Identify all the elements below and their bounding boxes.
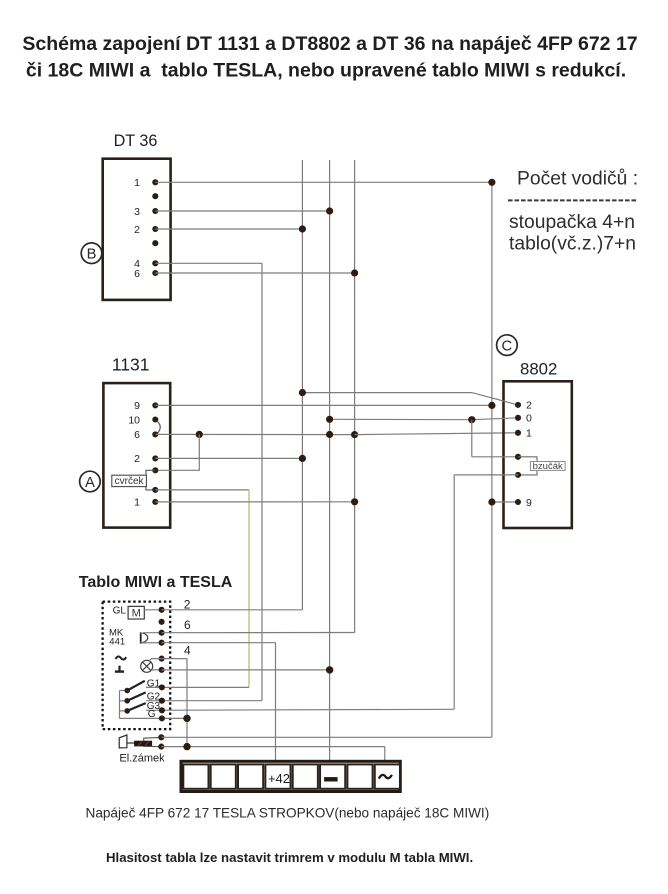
- junction bzučák-top branch: [468, 416, 475, 423]
- switch G1 stub: [120, 690, 128, 692]
- junction 1131.1/riser net-2b: [351, 498, 358, 505]
- terminal label AC: [379, 775, 392, 779]
- tablo pin row2 dot: [159, 607, 165, 613]
- junction 1131.6/riser net-2b: [351, 431, 358, 438]
- junction lamp row/riser net-2: [326, 666, 333, 673]
- wire riser net-4 x=262 (DT36.4 / tablo G2): [261, 263, 263, 700]
- wire cvrček box bottom lead: [146, 487, 155, 490]
- wire bzučák-bottom to riser x=454: [454, 474, 518, 476]
- wire riser bzučák-bottom/G3: [453, 475, 455, 709]
- legend dashed separator: [508, 199, 637, 201]
- wire coil upper terminal lead: [144, 737, 162, 741]
- wire bzučák-top branch vertical: [471, 420, 473, 457]
- svg-text:B: B: [87, 247, 97, 263]
- DT36 unconnected pin dot a: [152, 193, 158, 199]
- wire M box to pin 2: [144, 609, 161, 611]
- speaker MK441 symbol: [140, 632, 142, 643]
- tablo dashed body: [103, 602, 171, 730]
- 1131 pin 2 dot: [152, 455, 158, 461]
- wire riser net-2b x=354.6 (DT36.6 / tablo 6): [354, 160, 356, 633]
- svg-text:1: 1: [134, 497, 140, 509]
- wire DT36 pin4 horizontal: [155, 262, 262, 264]
- wire down-link x=187 (row4/G/el.zámek): [186, 659, 188, 747]
- node A label: [80, 471, 101, 492]
- svg-text:Schéma zapojení DT 1131 a DT88: Schéma zapojení DT 1131 a DT8802 a DT 36…: [22, 33, 637, 55]
- wire lamp top lead: [149, 659, 162, 662]
- wire 1131 pin2 to riser net-3: [155, 457, 302, 459]
- svg-text:DT 36: DT 36: [114, 132, 158, 150]
- svg-text:Počet vodičů :: Počet vodičů :: [517, 168, 638, 190]
- tablo pin G2 dot: [159, 698, 165, 704]
- wire cvrček box top lead: [146, 470, 155, 475]
- switch G2 hinge dot: [124, 698, 130, 704]
- wire lamp bottom lead: [152, 669, 162, 671]
- wire el.zámek bottom row: [161, 746, 384, 748]
- wire DT36 pin2 to riser net-3: [155, 228, 302, 230]
- 8802 pin 2 dot: [515, 402, 521, 408]
- lamp symbol: [141, 660, 153, 672]
- module M box: [128, 606, 144, 619]
- wire speaker top to pin 6: [143, 632, 162, 634]
- tablo pin G3 dot: [159, 707, 165, 713]
- wire speaker bottom to pin: [140, 642, 161, 644]
- 1131 cvrček bottom pin dot: [152, 487, 158, 493]
- tablo unconnected pin dot: [159, 619, 165, 625]
- tablo pin G1 dot: [159, 684, 165, 690]
- svg-text:9: 9: [526, 497, 532, 509]
- wire tablo row6 to riser net-2b: [162, 632, 355, 634]
- terminal strip outer body: [181, 761, 400, 791]
- 1131 cvrček top pin dot: [152, 467, 158, 473]
- junction 1131.2/riser net-3: [299, 455, 306, 462]
- wire bzučák-top branch to pin: [472, 456, 518, 458]
- svg-text:cvrček: cvrček: [115, 476, 145, 487]
- svg-text:1131: 1131: [112, 354, 150, 374]
- wire riser net-2 x=329.6 (DT36.3 / bus / minus terminal): [329, 160, 331, 761]
- DT36 pin 1 dot: [152, 179, 158, 185]
- svg-text:3: 3: [134, 206, 140, 218]
- tablo lamp top pin dot: [159, 656, 165, 662]
- svg-text:či 18C MIWI a tablo TESLA, ne: či 18C MIWI a tablo TESLA, nebo upravené…: [26, 60, 626, 82]
- DT36 pin 4 dot: [152, 260, 158, 266]
- wire net-3 upper run to 8802 pin2: [302, 393, 518, 405]
- junction el.zámek row/down-link: [183, 743, 190, 750]
- switch common bus: [119, 691, 121, 719]
- svg-text:A: A: [85, 475, 95, 491]
- wire G1 row to yellow riser: [146, 686, 249, 688]
- wire DT36 pin1 to riser net-1: [155, 181, 492, 183]
- junction 1131.6/riser net-2: [326, 431, 333, 438]
- svg-text:2: 2: [134, 453, 140, 465]
- switch G1 blade: [127, 681, 145, 691]
- wire G2 row to riser net-4: [146, 700, 262, 702]
- junction DT36.1/riser net-1: [488, 179, 495, 186]
- svg-text:+42: +42: [268, 771, 290, 786]
- svg-text:6: 6: [184, 618, 191, 632]
- el.zámek coil block: [135, 741, 152, 746]
- wire G3 row to bzučák-bottom riser: [146, 709, 454, 710]
- wire tablo speaker-bottom row to +42 drop: [162, 642, 276, 644]
- wire arc 1131 pin10 to pin6: [157, 421, 160, 433]
- switch G2 blade: [127, 692, 146, 700]
- junction net-2 run start: [326, 416, 333, 423]
- svg-text:1: 1: [134, 177, 140, 189]
- wire 1131 pin9 to riser net-1: [155, 404, 492, 406]
- svg-text:Tablo MIWI a TESLA: Tablo MIWI a TESLA: [79, 574, 233, 591]
- svg-text:GL: GL: [113, 605, 127, 616]
- junction G row/down-link: [183, 715, 190, 722]
- 1131 pin 1 dot: [152, 499, 158, 505]
- svg-text:2: 2: [134, 224, 140, 236]
- DT36 pin 2 dot: [152, 226, 158, 232]
- junction DT36.2/riser net-3: [299, 225, 306, 232]
- svg-text:Napáječ 4FP 672 17 TESLA STROP: Napáječ 4FP 672 17 TESLA STROPKOV(nebo n…: [86, 806, 490, 821]
- DT36 unconnected pin dot b: [152, 240, 158, 246]
- wire yellow riser to tablo G1: [248, 490, 250, 688]
- wire tablo row2 to riser net-3: [162, 609, 303, 611]
- node C label: [497, 335, 518, 356]
- DT36 pin 6 dot: [152, 270, 158, 276]
- 8802 bzučák top pin dot: [515, 454, 521, 460]
- 8802 pin 9 dot: [515, 499, 521, 505]
- 1131 pin 6 dot: [152, 431, 158, 437]
- wire cvrček bottom pin to yellow riser: [155, 489, 249, 491]
- switch G2 stub: [120, 700, 128, 702]
- 1131 pin 10 dot: [152, 416, 158, 422]
- tablo speaker bottom pin dot: [159, 640, 165, 646]
- wire stub to AC terminal: [384, 747, 386, 762]
- wire 8802 pin9 stub: [492, 501, 518, 503]
- switch G3 blade: [127, 703, 146, 711]
- svg-text:6: 6: [134, 429, 140, 441]
- 1131 pin 9 dot: [152, 402, 158, 408]
- svg-text:tablo(vč.z.)7+n: tablo(vč.z.)7+n: [509, 234, 636, 255]
- wire 1131 pin6 bus segment: [155, 433, 354, 435]
- junction net-3 upper run/riser: [299, 389, 306, 396]
- junction DT36.6/riser net-2b: [351, 269, 358, 276]
- wire lamp row4 to down-link: [162, 658, 187, 660]
- svg-text:M: M: [132, 608, 141, 620]
- tablo AC symbol ~: [116, 656, 127, 659]
- DT36 pin 3 dot: [152, 208, 158, 214]
- switch G3 stub: [120, 710, 128, 712]
- wire 1131 pin6 to 8802 pin1: [355, 433, 518, 435]
- junction 1131.6/local link: [196, 431, 203, 438]
- el.zámek bottom terminal dot: [158, 744, 164, 750]
- wire lamp bottom row to riser net-2: [162, 669, 330, 671]
- svg-text:0: 0: [526, 413, 532, 425]
- 8802 pin 0 dot: [515, 415, 521, 421]
- connector 1131 body: [103, 383, 170, 527]
- svg-text:9: 9: [134, 400, 140, 412]
- wire DT36 pin3 to riser net-2: [155, 210, 329, 212]
- el.zámek link wire: [127, 742, 135, 744]
- terminal cells: [183, 764, 208, 788]
- svg-text:4: 4: [184, 644, 191, 658]
- wire drop to +42 terminal: [275, 643, 277, 762]
- svg-text:bzučák: bzučák: [533, 461, 563, 472]
- tablo pin row6 dot: [159, 630, 165, 636]
- svg-text:C: C: [502, 338, 513, 354]
- wire local link down to cvrček top pin: [155, 434, 199, 470]
- node B label: [81, 243, 102, 264]
- wire riser net-3 x=302 (DT36.2 / 1131.2 / 8802.2 / tablo 2): [301, 160, 303, 610]
- switch G1 hinge dot: [124, 688, 130, 694]
- junction 8802.9/riser net-1: [488, 498, 495, 505]
- wire 1131 pin1 to riser net-2b: [155, 501, 354, 503]
- svg-text:6: 6: [134, 268, 140, 280]
- wire el.zámek top row to riser net-1: [161, 736, 492, 738]
- junction DT36.3/riser net-2: [326, 207, 333, 214]
- svg-text:2: 2: [526, 400, 532, 412]
- junction 1131.9/riser net-1: [488, 402, 495, 409]
- svg-text:El.zámek: El.zámek: [119, 752, 165, 764]
- switch G3 hinge dot: [124, 708, 130, 714]
- wire G row: [120, 717, 188, 719]
- connector DT36 body: [103, 159, 171, 300]
- svg-text:10: 10: [128, 414, 140, 426]
- el.zámek horn symbol: [119, 735, 127, 748]
- el.zámek top terminal dot: [158, 734, 164, 740]
- tablo pin G dot: [159, 715, 165, 721]
- svg-text:8802: 8802: [520, 360, 557, 379]
- connector 8802 body: [504, 381, 572, 528]
- tablo lamp bottom pin dot: [159, 667, 165, 673]
- 8802 bzučák bottom pin dot: [515, 472, 521, 478]
- cvrček label box: [112, 475, 147, 486]
- bzučák label box: [530, 462, 565, 471]
- tablo ground symbol: [118, 666, 120, 672]
- wire DT36 pin6 to riser net-2b: [155, 272, 354, 274]
- svg-text:stoupačka 4+n: stoupačka 4+n: [509, 212, 635, 233]
- wire riser net-1 x=491.9 (DT36.1 / 1131.9 / 8802.9 / el.zámek): [491, 182, 493, 737]
- svg-text:1: 1: [526, 428, 532, 440]
- wire bzučák bracket: [518, 457, 537, 475]
- 8802 pin 1 dot: [515, 430, 521, 436]
- wire coil lower terminal lead: [143, 745, 161, 747]
- svg-text:Hlasitost tabla lze nastavit t: Hlasitost tabla lze nastavit trimrem v m…: [106, 850, 473, 865]
- terminal label minus: [324, 777, 338, 781]
- wire net-2 run to 8802 pin0: [330, 418, 518, 420]
- svg-text:441: 441: [109, 637, 125, 648]
